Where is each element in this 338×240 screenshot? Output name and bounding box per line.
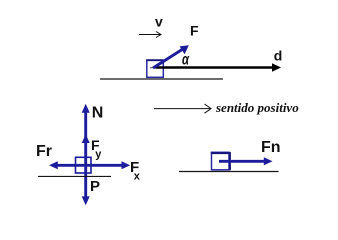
velocity arrow v — [139, 32, 161, 38]
svg-text:Fr: Fr — [36, 143, 52, 160]
normal force arrow N — [82, 104, 90, 166]
block (FBD) — [76, 157, 92, 173]
svg-text:v: v — [155, 14, 163, 30]
svg-text:x: x — [134, 171, 141, 183]
svg-text:P: P — [90, 178, 100, 195]
displacement arrow d — [156, 63, 282, 71]
svg-text:Fn: Fn — [261, 139, 281, 156]
force arrow F — [153, 45, 189, 68]
svg-text:sentido positivo: sentido positivo — [215, 100, 299, 115]
positive direction arrow — [154, 104, 211, 113]
svg-text:α: α — [182, 51, 190, 68]
svg-text:F: F — [190, 22, 199, 38]
block (bottom right) — [211, 152, 230, 170]
svg-text:N: N — [92, 105, 104, 122]
force component arrow Fx — [86, 161, 131, 169]
net force arrow Fn — [219, 157, 273, 165]
force component arrow Fy — [82, 134, 90, 143]
ground line (bottom right) — [179, 171, 279, 173]
dash inside block — [150, 67, 155, 69]
friction force arrow Fr — [49, 161, 86, 169]
block (top) — [146, 60, 163, 77]
ground line (top) — [100, 78, 223, 80]
weight arrow P — [82, 165, 90, 205]
surface line (FBD) — [38, 175, 111, 177]
svg-text:d: d — [274, 47, 283, 63]
svg-text:y: y — [95, 149, 102, 161]
